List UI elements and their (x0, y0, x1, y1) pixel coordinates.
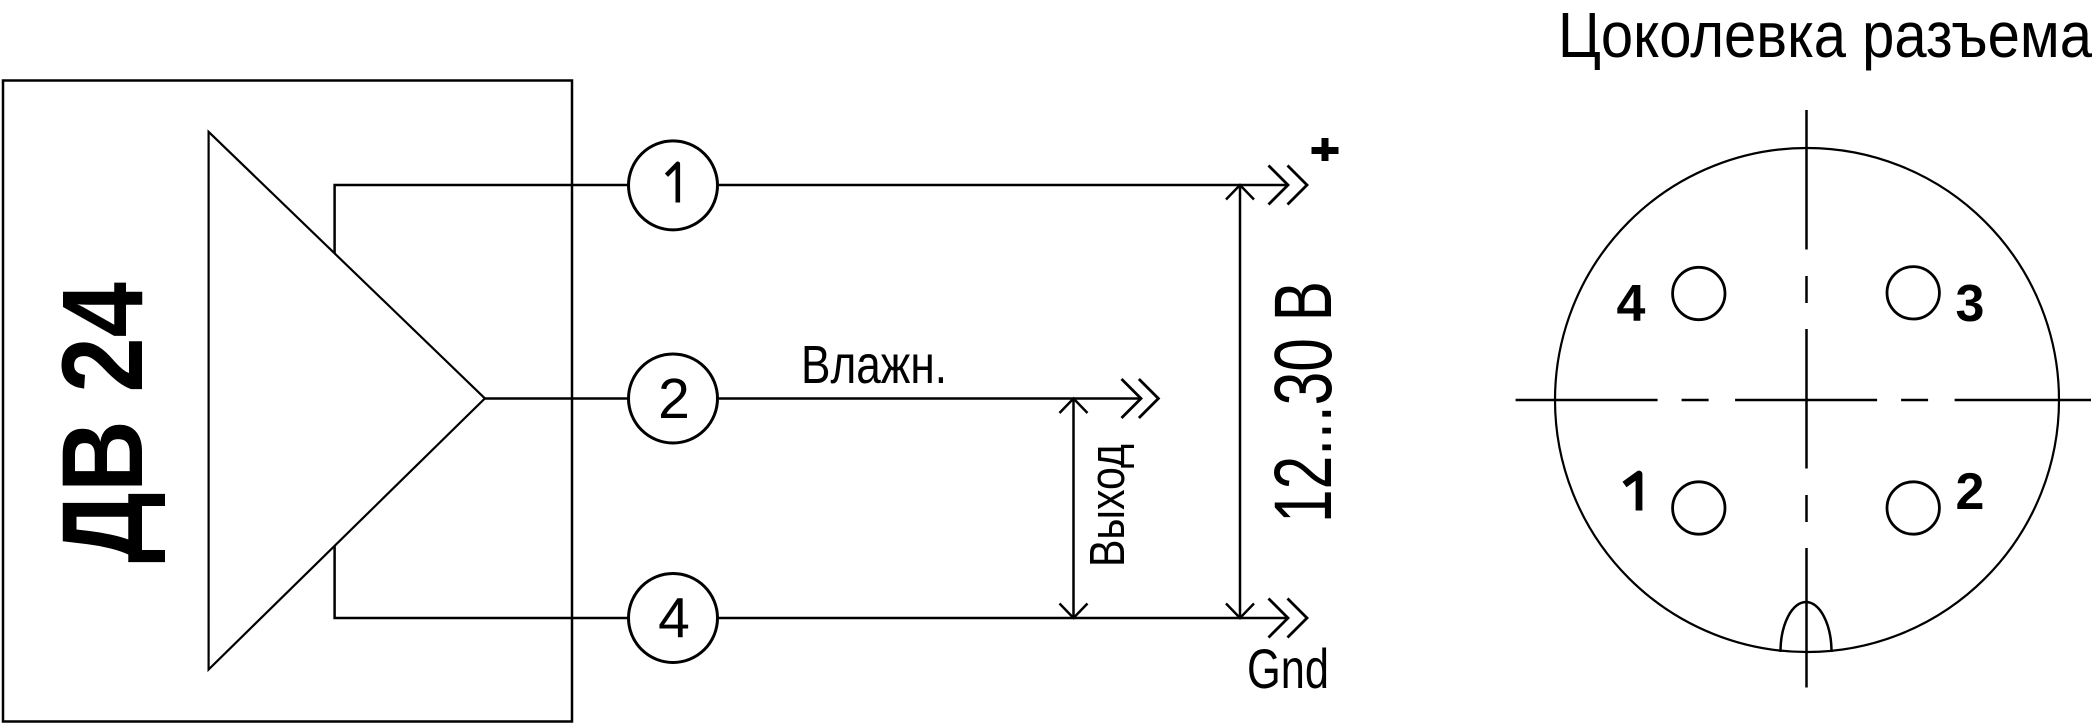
svg-text:4: 4 (1617, 275, 1646, 333)
svg-text:3: 3 (1956, 275, 1985, 333)
svg-text:2: 2 (658, 367, 690, 431)
svg-text:Цоколевка разъема: Цоколевка разъема (1558, 0, 2092, 71)
svg-text:12...30 В: 12...30 В (1258, 281, 1349, 523)
svg-text:Выход: Выход (1081, 444, 1135, 567)
svg-text:Влажн.: Влажн. (801, 335, 947, 395)
svg-text:4: 4 (658, 587, 690, 651)
svg-text:Gnd: Gnd (1247, 637, 1329, 700)
svg-text:2: 2 (1956, 463, 1985, 521)
svg-text:ДВ 24: ДВ 24 (39, 282, 167, 563)
